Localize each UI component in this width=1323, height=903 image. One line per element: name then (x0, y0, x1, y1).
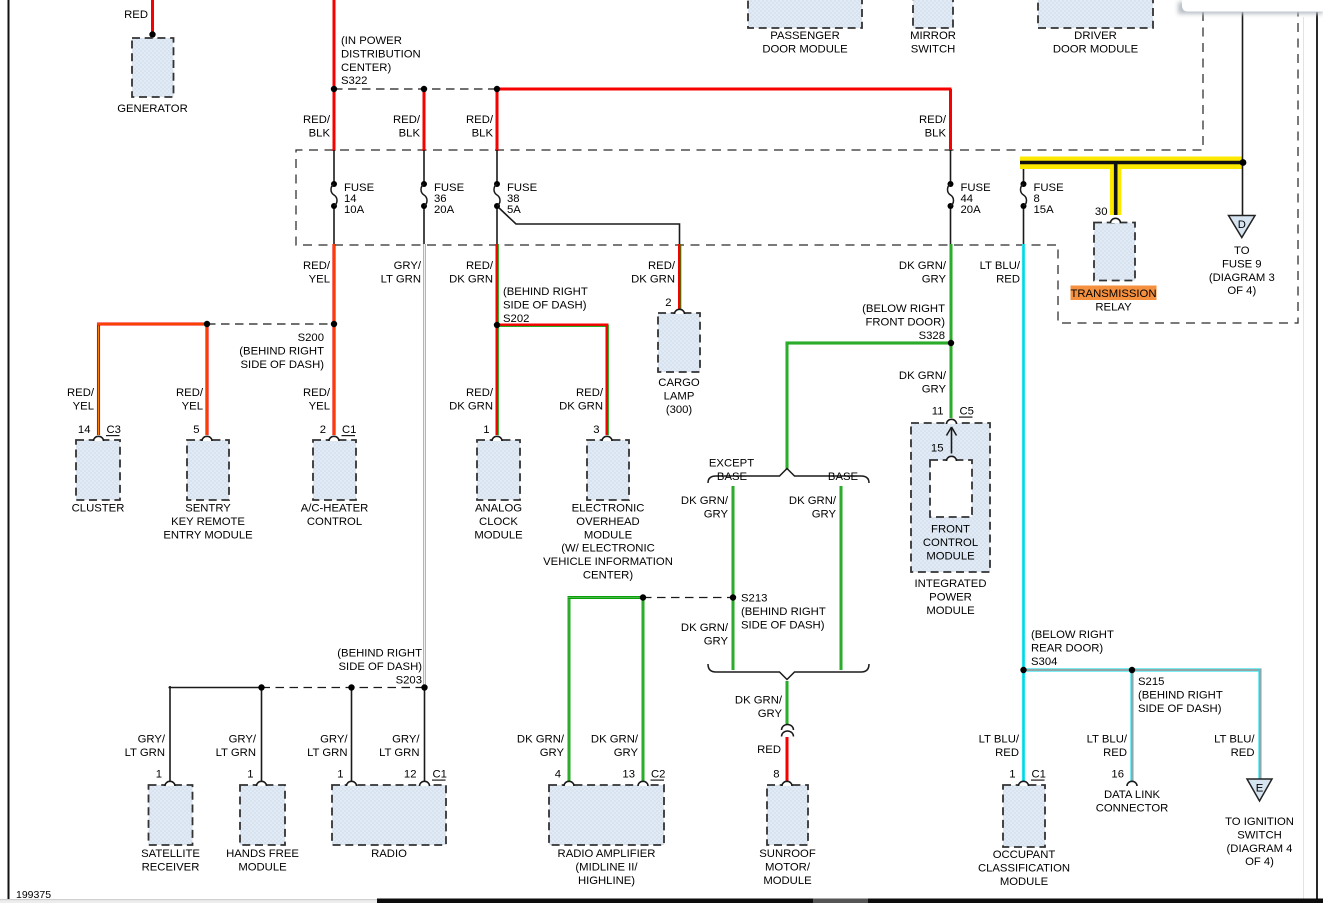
svg-text:LT GRN: LT GRN (379, 747, 419, 759)
svg-text:SIDE OF DASH): SIDE OF DASH) (339, 661, 423, 673)
svg-text:16: 16 (1111, 769, 1124, 781)
svg-text:HIGHLINE): HIGHLINE) (578, 875, 635, 887)
svg-text:LT BLU/: LT BLU/ (979, 734, 1020, 746)
svg-text:(W/ ELECTRONIC: (W/ ELECTRONIC (561, 543, 655, 555)
svg-text:REAR DOOR): REAR DOOR) (1031, 642, 1103, 654)
svg-text:MODULE: MODULE (926, 550, 975, 562)
svg-text:HANDS FREE: HANDS FREE (226, 848, 299, 860)
svg-text:(DIAGRAM 4: (DIAGRAM 4 (1227, 843, 1293, 855)
svg-text:TRANSMISSION: TRANSMISSION (1071, 288, 1157, 300)
svg-text:FUSE 9: FUSE 9 (1222, 258, 1262, 270)
svg-text:4: 4 (555, 769, 561, 781)
svg-text:BLK: BLK (472, 127, 494, 139)
svg-text:YEL: YEL (182, 400, 203, 412)
svg-text:GRY: GRY (614, 747, 639, 759)
svg-text:13: 13 (622, 769, 635, 781)
svg-text:DK GRN/: DK GRN/ (735, 695, 783, 707)
svg-text:BLK: BLK (309, 127, 331, 139)
svg-text:MODULE: MODULE (926, 605, 975, 617)
svg-text:SWITCH: SWITCH (911, 43, 956, 55)
svg-text:BLK: BLK (399, 127, 421, 139)
svg-text:GRY: GRY (704, 635, 729, 647)
svg-text:GRY: GRY (540, 747, 565, 759)
svg-text:RED/: RED/ (919, 114, 947, 126)
svg-text:SWITCH: SWITCH (1237, 829, 1282, 841)
svg-text:YEL: YEL (309, 400, 330, 412)
svg-text:LT BLU/: LT BLU/ (980, 260, 1021, 272)
svg-text:RED: RED (1231, 747, 1255, 759)
svg-text:(BEHIND RIGHT: (BEHIND RIGHT (503, 286, 588, 298)
svg-text:1: 1 (247, 769, 253, 781)
svg-text:DK GRN/: DK GRN/ (789, 495, 837, 507)
svg-text:ENTRY MODULE: ENTRY MODULE (163, 529, 253, 541)
svg-text:RED/: RED/ (67, 387, 95, 399)
svg-text:3: 3 (593, 424, 599, 436)
svg-text:S304: S304 (1031, 656, 1057, 668)
svg-text:DK GRN/: DK GRN/ (899, 260, 947, 272)
svg-text:(BEHIND RIGHT: (BEHIND RIGHT (239, 345, 324, 357)
svg-text:11: 11 (932, 406, 944, 418)
svg-text:EXCEPT: EXCEPT (709, 458, 754, 470)
svg-text:LT GRN: LT GRN (381, 273, 421, 285)
svg-text:MODULE: MODULE (584, 529, 633, 541)
svg-text:C2: C2 (651, 769, 665, 781)
svg-text:RED/: RED/ (466, 114, 494, 126)
svg-text:GRY/: GRY/ (392, 734, 420, 746)
svg-text:TO IGNITION: TO IGNITION (1225, 816, 1294, 828)
svg-text:S202: S202 (503, 313, 529, 325)
svg-text:GRY/: GRY/ (394, 260, 422, 272)
svg-text:CLUSTER: CLUSTER (72, 503, 125, 515)
svg-text:DK GRN: DK GRN (631, 273, 675, 285)
svg-text:A/C-HEATER: A/C-HEATER (301, 503, 369, 515)
svg-text:5: 5 (193, 424, 199, 436)
svg-text:1: 1 (483, 424, 489, 436)
svg-text:DOOR MODULE: DOOR MODULE (762, 43, 848, 55)
svg-text:MODULE: MODULE (474, 529, 523, 541)
svg-text:2: 2 (320, 424, 326, 436)
svg-text:DOOR MODULE: DOOR MODULE (1053, 43, 1139, 55)
svg-text:POWER: POWER (929, 591, 972, 603)
svg-text:MIRROR: MIRROR (910, 30, 956, 42)
svg-text:RED/: RED/ (303, 387, 331, 399)
svg-text:MODULE: MODULE (1000, 876, 1049, 888)
svg-text:SIDE OF DASH): SIDE OF DASH) (741, 619, 825, 631)
svg-text:C5: C5 (960, 406, 974, 418)
svg-text:20A: 20A (434, 204, 455, 216)
svg-text:1: 1 (337, 769, 343, 781)
svg-text:8: 8 (773, 769, 779, 781)
svg-text:(MIDLINE II/: (MIDLINE II/ (575, 861, 638, 873)
svg-text:E: E (1256, 783, 1264, 795)
svg-text:(BELOW RIGHT: (BELOW RIGHT (1031, 629, 1114, 641)
svg-text:D: D (1238, 219, 1246, 231)
svg-text:(BELOW RIGHT: (BELOW RIGHT (862, 303, 945, 315)
svg-text:14: 14 (78, 424, 91, 436)
svg-text:S200: S200 (298, 332, 324, 344)
svg-text:YEL: YEL (73, 400, 94, 412)
svg-text:RADIO AMPLIFIER: RADIO AMPLIFIER (558, 848, 656, 860)
svg-text:PASSENGER: PASSENGER (770, 30, 839, 42)
svg-text:DK GRN: DK GRN (559, 400, 603, 412)
svg-text:VEHICLE INFORMATION: VEHICLE INFORMATION (543, 556, 673, 568)
svg-text:C1: C1 (433, 769, 447, 781)
svg-text:GRY: GRY (812, 508, 837, 520)
svg-text:RED/: RED/ (466, 387, 494, 399)
svg-text:SUNROOF: SUNROOF (759, 848, 816, 860)
svg-text:10A: 10A (344, 204, 365, 216)
svg-text:CENTER): CENTER) (583, 570, 633, 582)
svg-text:DISTRIBUTION: DISTRIBUTION (341, 48, 421, 60)
svg-text:15A: 15A (1034, 204, 1055, 216)
svg-text:S328: S328 (919, 330, 945, 342)
svg-text:RED: RED (996, 273, 1020, 285)
svg-text:MODULE: MODULE (238, 861, 287, 873)
svg-text:GRY: GRY (922, 273, 947, 285)
svg-text:DK GRN/: DK GRN/ (681, 622, 729, 634)
svg-text:CONTROL: CONTROL (923, 537, 978, 549)
svg-text:GRY: GRY (758, 708, 783, 720)
svg-text:CLASSIFICATION: CLASSIFICATION (978, 862, 1070, 874)
svg-text:CONNECTOR: CONNECTOR (1096, 802, 1169, 814)
svg-text:RED: RED (1103, 747, 1127, 759)
svg-text:OCCUPANT: OCCUPANT (993, 849, 1056, 861)
svg-text:C3: C3 (107, 424, 121, 436)
svg-text:RECEIVER: RECEIVER (142, 861, 200, 873)
svg-text:ELECTRONIC: ELECTRONIC (572, 503, 645, 515)
svg-text:LAMP: LAMP (664, 390, 695, 402)
svg-text:30: 30 (1095, 206, 1108, 218)
svg-text:DK GRN/: DK GRN/ (681, 495, 729, 507)
svg-text:YEL: YEL (309, 273, 330, 285)
svg-text:SIDE OF DASH): SIDE OF DASH) (241, 359, 325, 371)
svg-text:BLK: BLK (925, 127, 947, 139)
svg-text:SATELLITE: SATELLITE (141, 848, 200, 860)
svg-text:GRY/: GRY/ (138, 734, 166, 746)
svg-text:GRY: GRY (704, 508, 729, 520)
svg-text:S213: S213 (741, 593, 767, 605)
svg-text:RED: RED (757, 744, 781, 756)
svg-text:RED/: RED/ (466, 260, 494, 272)
svg-text:LT GRN: LT GRN (307, 747, 347, 759)
svg-text:RED: RED (124, 9, 148, 21)
svg-text:15: 15 (931, 443, 944, 455)
svg-text:LT GRN: LT GRN (216, 747, 256, 759)
svg-text:LT GRN: LT GRN (125, 747, 165, 759)
svg-text:ANALOG: ANALOG (475, 503, 522, 515)
svg-text:SENTRY: SENTRY (185, 503, 231, 515)
svg-text:RADIO: RADIO (371, 848, 407, 860)
svg-text:DATA LINK: DATA LINK (1104, 789, 1161, 801)
svg-text:OF 4): OF 4) (1227, 285, 1256, 297)
svg-text:RED/: RED/ (176, 387, 204, 399)
svg-text:DRIVER: DRIVER (1074, 30, 1117, 42)
svg-text:INTEGRATED: INTEGRATED (915, 578, 987, 590)
svg-text:BASE: BASE (828, 471, 859, 483)
svg-text:OVERHEAD: OVERHEAD (576, 516, 639, 528)
svg-text:GRY/: GRY/ (320, 734, 348, 746)
svg-text:RED/: RED/ (303, 260, 331, 272)
svg-text:BASE: BASE (717, 471, 748, 483)
svg-text:TO: TO (1234, 245, 1250, 257)
svg-text:S203: S203 (396, 674, 422, 686)
svg-text:12: 12 (404, 769, 417, 781)
svg-text:SIDE OF DASH): SIDE OF DASH) (1138, 703, 1222, 715)
svg-text:DK GRN/: DK GRN/ (517, 734, 565, 746)
svg-text:RED/: RED/ (576, 387, 604, 399)
svg-text:FRONT: FRONT (931, 524, 970, 536)
svg-text:(300): (300) (666, 404, 693, 416)
svg-text:RED: RED (995, 747, 1019, 759)
svg-text:C1: C1 (1032, 769, 1046, 781)
svg-text:DK GRN/: DK GRN/ (899, 370, 947, 382)
svg-text:RELAY: RELAY (1095, 302, 1132, 314)
svg-text:FRONT DOOR): FRONT DOOR) (866, 316, 946, 328)
svg-text:(BEHIND RIGHT: (BEHIND RIGHT (741, 606, 826, 618)
svg-text:CONTROL: CONTROL (307, 516, 362, 528)
svg-text:CLOCK: CLOCK (479, 516, 518, 528)
svg-text:MOTOR/: MOTOR/ (765, 861, 811, 873)
svg-text:CARGO: CARGO (658, 377, 700, 389)
svg-text:DK GRN/: DK GRN/ (591, 734, 639, 746)
svg-text:RED/: RED/ (393, 114, 421, 126)
svg-text:(DIAGRAM 3: (DIAGRAM 3 (1209, 272, 1275, 284)
svg-text:KEY REMOTE: KEY REMOTE (171, 516, 245, 528)
svg-text:RED/: RED/ (303, 114, 331, 126)
svg-text:(BEHIND RIGHT: (BEHIND RIGHT (337, 648, 422, 660)
svg-text:5A: 5A (507, 204, 521, 216)
svg-text:(IN POWER: (IN POWER (341, 35, 402, 47)
svg-text:(BEHIND RIGHT: (BEHIND RIGHT (1138, 689, 1223, 701)
svg-text:1: 1 (1009, 769, 1015, 781)
svg-text:2: 2 (665, 297, 671, 309)
svg-text:DK GRN: DK GRN (449, 400, 493, 412)
svg-text:SIDE OF DASH): SIDE OF DASH) (503, 299, 587, 311)
svg-text:1: 1 (156, 769, 162, 781)
svg-text:MODULE: MODULE (763, 875, 812, 887)
svg-text:GRY: GRY (922, 383, 947, 395)
svg-text:C1: C1 (342, 424, 356, 436)
svg-text:RED/: RED/ (648, 260, 676, 272)
svg-text:OF 4): OF 4) (1245, 856, 1274, 868)
svg-text:LT BLU/: LT BLU/ (1214, 734, 1255, 746)
svg-text:LT BLU/: LT BLU/ (1087, 734, 1128, 746)
svg-text:20A: 20A (961, 204, 982, 216)
svg-text:S322: S322 (341, 75, 367, 87)
svg-text:CENTER): CENTER) (341, 62, 391, 74)
svg-text:GRY/: GRY/ (229, 734, 257, 746)
svg-text:DK GRN: DK GRN (449, 273, 493, 285)
svg-text:S215: S215 (1138, 676, 1164, 688)
svg-text:GENERATOR: GENERATOR (117, 103, 188, 115)
